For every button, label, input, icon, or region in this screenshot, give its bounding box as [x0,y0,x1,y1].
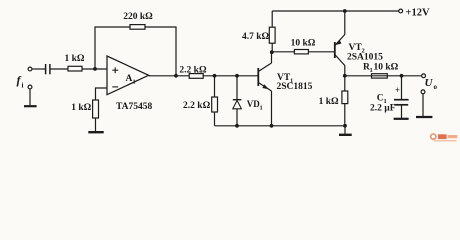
wire [214,112,216,126]
svg-text:o: o [434,83,438,91]
resistor 4.7k [269,27,275,43]
svg-text:1: 1 [133,79,136,86]
svg-text:VT: VT [349,43,363,53]
resistor 220k [130,25,145,30]
svg-text:1: 1 [260,105,263,112]
wire (output rail) [345,75,422,77]
op-amp plus sign [112,67,118,73]
wire (VT1 emitter) [271,91,273,126]
node (collector/output node) [343,74,347,78]
watermark [431,134,458,142]
op-amp A1 [107,56,149,95]
svg-text:2.2 kΩ: 2.2 kΩ [179,65,207,75]
node [235,74,239,78]
node (plus input junction) [93,67,97,71]
wire [422,94,424,117]
resistor 1k (input) [68,66,82,71]
ground (input port) [24,105,37,107]
svg-text:10 kΩ: 10 kΩ [291,38,316,48]
wire (10k feed) [272,51,295,53]
svg-text:U: U [425,77,434,89]
capacitor C1 2.2uF [394,76,409,119]
svg-text:1 kΩ: 1 kΩ [71,103,91,113]
node [270,124,274,128]
wire [344,104,346,126]
+12V terminal [399,9,403,13]
wire [308,51,334,53]
op-amp minus sign [112,86,118,88]
output lower terminal [421,90,425,94]
wire [51,68,68,70]
ground (output port) [416,116,432,118]
input lower terminal [28,85,32,89]
wire (VT2 collector) [344,66,346,76]
wire [82,68,107,70]
diode VD1 [233,100,242,109]
node (output junction) [174,74,178,78]
wire (ground rail) [215,125,346,127]
wire (+12V rail) [272,10,399,12]
svg-text:2SC1815: 2SC1815 [277,82,313,92]
wire [203,75,258,77]
svg-text:1: 1 [370,67,373,74]
svg-text:10 kΩ: 10 kΩ [374,62,399,72]
input terminal fi (top) [28,67,32,71]
wire [344,76,346,91]
resistor R1 10k [372,74,388,78]
wire [32,68,45,70]
node (collector node) [270,50,274,54]
wire (feedback left vertical) [95,27,130,69]
svg-text:+: + [395,85,400,95]
wire (inverting input) [96,88,108,100]
coupling capacitor [46,64,50,74]
wire [236,109,238,126]
resistor 1k (to ground) [93,100,99,118]
svg-text:2.2 kΩ: 2.2 kΩ [183,101,211,111]
resistor 2.2k (shunt) [212,97,218,112]
svg-text:2.2 µF: 2.2 µF [370,103,396,113]
wire [29,89,31,106]
wire [95,118,97,132]
svg-text:4.7 kΩ: 4.7 kΩ [242,32,270,42]
svg-text:i: i [22,82,24,90]
node (rail) [343,9,347,13]
wire [271,43,273,52]
resistor 10k [294,50,308,54]
resistor 2.2k (series) [189,74,203,79]
wire [271,11,273,27]
svg-text:TA75458: TA75458 [116,102,152,112]
node [343,124,347,128]
svg-text:1 kΩ: 1 kΩ [64,54,84,64]
wire [214,76,216,97]
svg-text:1 kΩ: 1 kΩ [319,97,339,107]
svg-text:220 kΩ: 220 kΩ [123,12,153,22]
resistor 1k (VT2 load) [342,91,348,104]
node [235,124,239,128]
svg-text:+12V: +12V [406,7,430,18]
svg-text:VD: VD [247,99,260,109]
ground (op-amp) [88,131,103,133]
ground (main rail) [339,126,352,135]
wire [236,76,238,99]
node [213,74,217,78]
wire (feedback top + right vertical) [145,27,176,76]
wire (op-amp output) [149,75,189,77]
transistor Q1 VT1 2SC1815 [258,63,271,91]
node (C1 tap) [400,74,404,78]
svg-text:A: A [126,74,133,84]
transistor Q2 VT2 2SA1015 [335,35,345,66]
wire (VT1 collector) [271,52,273,63]
output terminal Uo [422,74,426,78]
wire (VT2 emitter) [344,11,346,35]
svg-text:2SA1015: 2SA1015 [347,53,383,63]
